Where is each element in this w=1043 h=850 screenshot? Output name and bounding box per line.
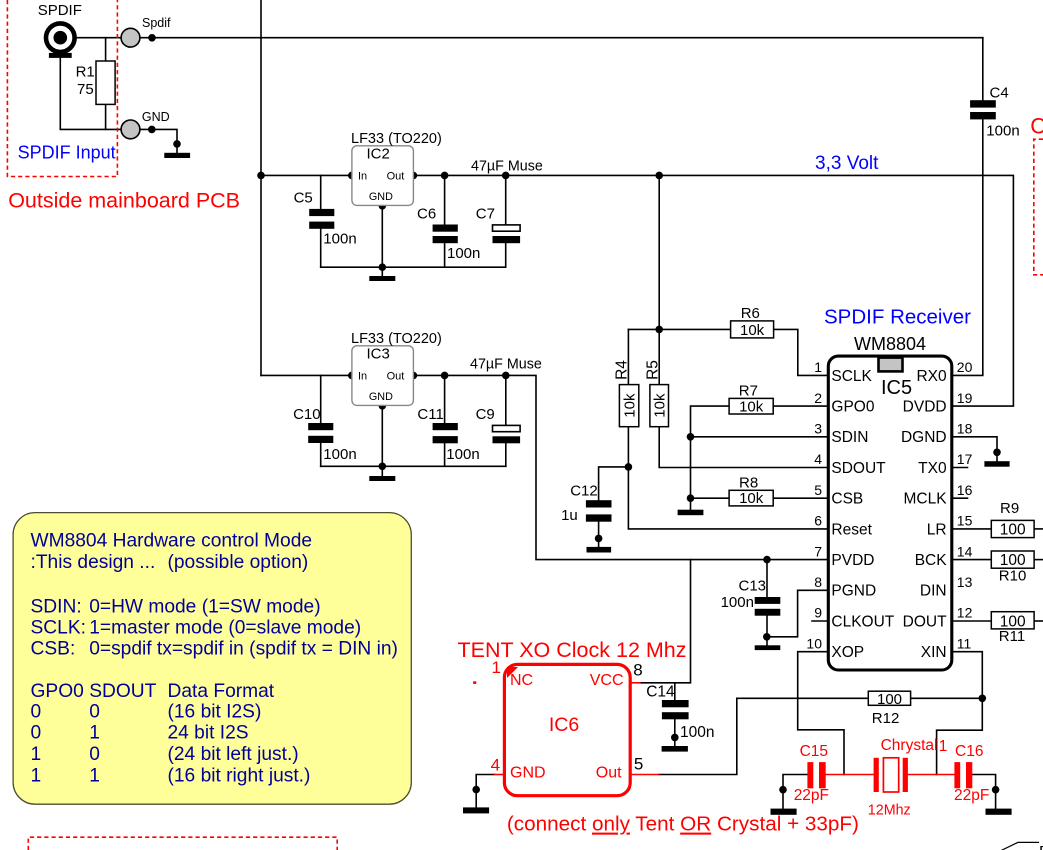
- svg-text:10k: 10k: [740, 322, 765, 339]
- svg-text:GND: GND: [142, 110, 170, 124]
- wire R6 right to SCLK pin 1: [774, 329, 829, 375]
- red dashed box right edge (cut off): [1034, 139, 1043, 275]
- wire XIN pin 11 down to crystal line: [937, 652, 983, 775]
- svg-text:0: 0: [89, 702, 100, 723]
- svg-text:IC3: IC3: [367, 346, 390, 363]
- svg-text:22pF: 22pF: [794, 787, 829, 804]
- svg-text:PVDD: PVDD: [831, 552, 874, 569]
- capacitor C10: [308, 423, 333, 430]
- IC5 left pin names: [831, 368, 894, 661]
- wire C12 to R4 net: [599, 467, 629, 500]
- capacitor C9 (electrolytic): [493, 425, 521, 431]
- wire C13 ground stub: [766, 637, 768, 646]
- ground (IC2 regulator): [369, 276, 395, 281]
- svg-text:LF33 (TO220): LF33 (TO220): [351, 331, 442, 347]
- svg-text:10k: 10k: [739, 490, 764, 507]
- wire C13 top stub: [766, 560, 768, 597]
- svg-text:100n: 100n: [680, 724, 714, 741]
- wire CLKOUT pin 9 stub: [812, 620, 828, 622]
- capacitor C4: [970, 100, 996, 107]
- junction C15 ground: [779, 786, 787, 794]
- svg-text:GND: GND: [369, 391, 393, 403]
- svg-text:C11: C11: [417, 406, 443, 423]
- svg-text:IC6: IC6: [549, 714, 579, 736]
- junction C12 reset net: [625, 463, 633, 471]
- wire R12 right to XIN vertical: [911, 697, 983, 699]
- svg-text:4: 4: [491, 755, 500, 774]
- svg-text:XIN: XIN: [921, 644, 947, 661]
- capacitor C13: [755, 597, 781, 604]
- svg-text:SPDIF Input: SPDIF Input: [18, 142, 116, 162]
- IC5 right pin numbers: [957, 359, 973, 651]
- svg-text:In: In: [358, 371, 367, 383]
- svg-text:Out: Out: [387, 371, 405, 383]
- svg-text:SDIN:: SDIN:: [31, 597, 82, 618]
- svg-text:Ci: Ci: [1030, 114, 1043, 139]
- svg-text:2: 2: [814, 390, 822, 406]
- svg-text:8: 8: [633, 661, 642, 680]
- wire C14 bottom stub: [674, 719, 676, 746]
- svg-text:R9: R9: [1000, 500, 1019, 517]
- resistor R9: [991, 520, 1034, 537]
- wire TX0 pin 17 stub: [952, 467, 968, 469]
- IC5 left pin numbers: [806, 359, 822, 651]
- svg-text:0=HW mode (1=SW mode): 0=HW mode (1=SW mode): [89, 597, 320, 618]
- svg-text:MCLK: MCLK: [904, 491, 948, 508]
- svg-text:GND: GND: [510, 765, 546, 782]
- svg-text:(16 bit I2S): (16 bit I2S): [168, 702, 262, 723]
- wire C7 stub top: [505, 175, 507, 224]
- junction IC6 GND ground: [472, 786, 480, 794]
- wire DOUT pin 12 to R11: [952, 620, 992, 622]
- svg-text:3,3 Volt: 3,3 Volt: [815, 153, 879, 174]
- pin IC2 GND: [379, 202, 387, 210]
- ground (IC6 GND): [463, 807, 489, 813]
- svg-text:100n: 100n: [721, 594, 754, 611]
- wire R4 top stub: [627, 329, 629, 384]
- svg-text:C12: C12: [570, 483, 598, 500]
- svg-text:3: 3: [814, 421, 822, 437]
- capacitor C7 (electrolytic): [493, 225, 521, 231]
- svg-text:DVDD: DVDD: [903, 399, 947, 416]
- wire C14 top stub: [674, 683, 676, 700]
- wire spdif net (pad to C4 top, runs right across page): [140, 37, 983, 39]
- ground (C15): [771, 809, 797, 815]
- svg-text:R7: R7: [739, 382, 758, 399]
- svg-text:LR: LR: [927, 521, 947, 538]
- resistor R7: [729, 398, 773, 414]
- svg-text:C10: C10: [293, 406, 321, 423]
- svg-text:Outside mainboard PCB: Outside mainboard PCB: [8, 189, 240, 213]
- resistor R11: [991, 612, 1034, 629]
- svg-text:10k: 10k: [652, 393, 669, 418]
- wire R10 right to edge: [1034, 559, 1043, 561]
- wire MCLK pin 16 stub: [952, 497, 968, 499]
- svg-text:WM8804: WM8804: [854, 334, 926, 354]
- wire C9 stub top: [505, 375, 507, 425]
- svg-text:DGND: DGND: [901, 429, 947, 446]
- red dashed box SPDIF input: [7, 0, 117, 177]
- wire IC6 Out black segment up to R12: [659, 698, 869, 774]
- svg-text:1: 1: [89, 723, 100, 744]
- wire R8 right to CSB pin 5: [773, 497, 828, 499]
- svg-text:13: 13: [957, 574, 973, 590]
- svg-text:1: 1: [492, 658, 501, 677]
- wire R7 right to GPO0 pin 2: [773, 405, 828, 407]
- svg-text:R8: R8: [739, 474, 758, 491]
- svg-text:0: 0: [31, 723, 42, 744]
- IC5 right pin names: [901, 368, 947, 661]
- svg-text:C16: C16: [955, 743, 983, 760]
- wire IC6 GND black segment to ground: [476, 775, 494, 808]
- regulator IC3: [352, 346, 414, 406]
- svg-text:10k: 10k: [739, 398, 764, 415]
- regulator IC2: [352, 146, 414, 206]
- junction regulator input tee: [257, 172, 265, 180]
- wire R7 left to ground vertical: [691, 406, 730, 510]
- junction IC2 ground bus: [379, 263, 387, 271]
- resistor R1: [96, 61, 115, 104]
- yellow note box: [13, 513, 411, 805]
- wire 3.3V drop to pull-up rail: [658, 175, 660, 329]
- svg-text:C7: C7: [476, 205, 495, 222]
- capacitor C11: [433, 423, 458, 430]
- ground (C12): [587, 547, 612, 553]
- svg-text:6: 6: [814, 513, 822, 529]
- svg-text:C5: C5: [294, 190, 313, 207]
- svg-text:24 bit I2S: 24 bit I2S: [168, 723, 249, 744]
- svg-text:GPO0: GPO0: [31, 681, 84, 702]
- IC6 stray red dot: [473, 681, 476, 684]
- svg-text:IC2: IC2: [367, 146, 390, 163]
- svg-text:SCLK: SCLK: [831, 368, 872, 385]
- svg-text::This design ...: :This design ...: [31, 552, 156, 573]
- wire R8 left stub: [691, 497, 730, 499]
- wire GND pad to ground: [140, 129, 177, 152]
- pin IC3 GND: [379, 402, 387, 410]
- svg-text:100: 100: [877, 691, 902, 708]
- svg-text:TX0: TX0: [918, 460, 947, 477]
- wire IC3 input segment: [261, 374, 352, 376]
- svg-text:12Mhz: 12Mhz: [868, 802, 911, 818]
- svg-text:CSB: CSB: [831, 491, 863, 508]
- svg-text:16: 16: [957, 482, 973, 498]
- svg-text:14: 14: [957, 543, 973, 559]
- pin IC3 Out: [410, 372, 418, 380]
- junction gnd pad: [148, 126, 156, 134]
- junction IC3 ground bus: [379, 463, 387, 471]
- svg-text:DOUT: DOUT: [903, 613, 947, 630]
- svg-text:PGND: PGND: [831, 583, 876, 600]
- capacitor C5: [309, 209, 334, 216]
- resistor R6: [731, 321, 774, 338]
- junction C7 top: [502, 172, 510, 180]
- svg-text:5: 5: [634, 755, 643, 774]
- svg-text:SCLK:: SCLK:: [31, 618, 86, 639]
- wire C15 left to ground: [783, 775, 807, 809]
- svg-text:WM8804 Hardware control Mode: WM8804 Hardware control Mode: [31, 531, 313, 552]
- svg-text:1=master mode (0=slave mode): 1=master mode (0=slave mode): [89, 618, 361, 639]
- wire C13 bottom to PGND pin 8: [767, 590, 828, 637]
- wire R5 top stub: [658, 329, 660, 384]
- svg-text:R6: R6: [741, 305, 760, 322]
- svg-text:SDOUT: SDOUT: [89, 681, 156, 702]
- red dashed box bottom (cut off): [28, 837, 337, 850]
- wire C6 stub top: [444, 175, 446, 224]
- svg-text:75: 75: [77, 81, 94, 98]
- svg-text:C6: C6: [417, 205, 436, 222]
- svg-text:LF33 (TO220): LF33 (TO220): [351, 131, 442, 147]
- svg-text:VCC: VCC: [590, 672, 624, 689]
- svg-text:100n: 100n: [446, 446, 479, 463]
- wire 47uF rail from IC3 out, down to PVDD pin 7: [413, 375, 828, 559]
- wire C12 bottom stub: [598, 522, 600, 547]
- wire bottom-right connector outline fragment: [1002, 842, 1038, 850]
- wire R4 bottom to Reset pin 6: [628, 427, 828, 529]
- svg-text:XOP: XOP: [831, 644, 864, 661]
- wire IC2 input segment: [261, 174, 352, 176]
- svg-text:RX0: RX0: [916, 368, 947, 385]
- svg-text:0=spdif tx=spdif in (spdif tx: 0=spdif tx=spdif in (spdif tx = DIN in): [89, 639, 398, 660]
- svg-text:5: 5: [814, 482, 822, 498]
- svg-text:R10: R10: [999, 568, 1027, 585]
- svg-text:C15: C15: [800, 743, 828, 760]
- ground (IC3 regulator): [369, 476, 395, 481]
- svg-text:10: 10: [806, 635, 822, 651]
- junction R12 XIN: [979, 695, 987, 703]
- svg-text:IC5: IC5: [881, 377, 912, 399]
- wire C11 stub bottom: [444, 443, 446, 466]
- svg-text:Out: Out: [387, 171, 405, 183]
- svg-text:DIN: DIN: [920, 583, 947, 600]
- SPDIF RCA connector: [46, 23, 75, 52]
- svg-text:0: 0: [89, 744, 100, 765]
- junction C9 top: [502, 372, 510, 380]
- wire C5 stub bottom: [320, 229, 322, 267]
- capacitor C15 (red): [807, 762, 813, 788]
- svg-text:C9: C9: [476, 406, 495, 423]
- svg-text:C4: C4: [990, 84, 1009, 101]
- wire C16 right to ground: [972, 775, 995, 809]
- svg-text:1: 1: [31, 766, 42, 787]
- IC5 notch: [879, 358, 903, 372]
- svg-text:Chrystal: Chrystal: [881, 737, 938, 754]
- junction C13 PGND ground: [763, 633, 771, 641]
- svg-text:47µF Muse: 47µF Muse: [471, 158, 543, 174]
- svg-text:47µF Muse: 47µF Muse: [470, 357, 542, 373]
- svg-text:In: In: [358, 171, 367, 183]
- junction R5 R6 pull-up rail: [655, 326, 663, 334]
- pin IC2 In: [348, 172, 356, 180]
- svg-text:100n: 100n: [323, 446, 356, 463]
- resistor R5: [650, 385, 669, 427]
- wire C9 stub bottom: [505, 443, 507, 466]
- svg-text:(16 bit right just.): (16 bit right just.): [168, 766, 311, 787]
- wire XOP pin 10 to crystal line: [798, 652, 844, 775]
- pin IC3 In: [348, 372, 356, 380]
- ground (C16): [986, 809, 1012, 815]
- svg-text:1: 1: [31, 744, 42, 765]
- wire R5 bottom to SDOUT pin 4: [659, 427, 828, 468]
- wire LR pin 15 to R9: [952, 528, 992, 530]
- svg-text:SPDIF: SPDIF: [38, 2, 82, 19]
- junction C12 ground: [595, 535, 603, 543]
- junction C6 top: [441, 172, 449, 180]
- svg-text:18: 18: [957, 421, 973, 437]
- wire IC2 ground bus: [321, 266, 506, 268]
- svg-text:1: 1: [814, 359, 822, 375]
- ground (DGND pin 18): [984, 461, 1009, 467]
- ground (R7 R8 SDIN net): [678, 510, 704, 516]
- svg-text:100n: 100n: [447, 245, 480, 262]
- svg-text:8: 8: [814, 574, 822, 590]
- junction C11 top: [441, 372, 449, 380]
- svg-text:GPO0: GPO0: [831, 399, 874, 416]
- wire IC3 ground bus: [321, 465, 506, 467]
- capacitor C6: [433, 225, 458, 232]
- pin IC2 Out: [410, 172, 418, 180]
- junction gnd pad ground elbow: [173, 140, 181, 148]
- wire C4 vertical top: [982, 38, 984, 100]
- wire C10 stub top: [320, 375, 322, 423]
- wire R9 right to edge: [1034, 528, 1043, 530]
- wire C11 stub top: [444, 375, 446, 423]
- svg-text:22pF: 22pF: [954, 787, 989, 804]
- wire BCK pin 14 to R10: [952, 559, 992, 561]
- capacitor C12: [586, 500, 612, 507]
- svg-text:NC: NC: [510, 672, 533, 689]
- junction DGND ground: [993, 449, 1001, 457]
- capacitor C14: [662, 700, 689, 707]
- svg-text:20: 20: [957, 359, 973, 375]
- pad GND: [121, 120, 140, 139]
- wire regulator input vertical from top edge: [260, 0, 262, 375]
- crystal Chrystal1: [874, 758, 879, 792]
- svg-text:Out: Out: [596, 765, 622, 782]
- svg-text:Spdif: Spdif: [142, 16, 171, 30]
- svg-text:(24 bit left just.): (24 bit left just.): [168, 744, 299, 765]
- resistor R12: [868, 691, 910, 705]
- svg-text:7: 7: [814, 543, 822, 559]
- oscillator IC6 body: [504, 664, 630, 795]
- svg-text:CSB:: CSB:: [31, 639, 76, 660]
- svg-text:R11: R11: [999, 628, 1025, 645]
- wire DGND pin 18 to ground: [952, 437, 997, 461]
- junction C16 ground: [992, 786, 1000, 794]
- svg-text:Data Format: Data Format: [168, 681, 275, 702]
- ground (C14): [662, 746, 688, 752]
- yellow box note text: [31, 531, 398, 787]
- wire C6 stub bottom: [444, 243, 446, 267]
- junction C13 PVDD: [763, 556, 771, 564]
- svg-text:(possible option): (possible option): [168, 552, 309, 573]
- svg-text:19: 19: [957, 390, 973, 406]
- svg-text:100: 100: [1000, 521, 1026, 538]
- svg-text:4: 4: [814, 451, 822, 467]
- wire 3.3V rail from IC2 out to DVDD pin 19: [413, 175, 1013, 406]
- resistor R4: [619, 385, 638, 427]
- ground (C13 PGND): [755, 645, 781, 650]
- svg-text:17: 17: [957, 451, 973, 467]
- svg-text:B: B: [1039, 844, 1043, 850]
- svg-text:Reset: Reset: [831, 521, 872, 538]
- svg-text:11: 11: [957, 635, 972, 651]
- wire red IC6 Out stub: [630, 774, 658, 776]
- wire IC2 GND pin stub: [381, 206, 383, 276]
- svg-text:GND: GND: [369, 191, 393, 203]
- svg-text:BCK: BCK: [915, 552, 948, 569]
- wire IC3 GND pin stub: [381, 406, 383, 476]
- wire pull-up rail R4 R5 to R6: [628, 328, 730, 330]
- svg-text:SDOUT: SDOUT: [831, 460, 886, 477]
- junction 3.3V pull-up tee: [655, 172, 663, 180]
- svg-text:1u: 1u: [561, 507, 578, 524]
- wire C5 stub top: [320, 175, 322, 209]
- svg-text:C14: C14: [646, 684, 675, 701]
- wire spdif net (RCA pin to pad): [76, 37, 122, 39]
- IC5 WM8804 body: [828, 356, 952, 670]
- svg-text:100n: 100n: [986, 122, 1019, 139]
- svg-text:R4: R4: [614, 360, 631, 380]
- wire red IC6 VCC stub: [630, 682, 640, 684]
- wire R1 top stub: [105, 38, 107, 61]
- wire R11 right to edge: [1034, 620, 1043, 622]
- wire C4 vertical bottom to RX0 pin 20: [952, 119, 983, 375]
- svg-text:CLKOUT: CLKOUT: [831, 613, 894, 630]
- junction spdif pad: [148, 34, 156, 42]
- wire R1 bottom stub: [105, 104, 107, 129]
- wire RCA sleeve to GND pad: [60, 58, 121, 130]
- svg-text:R5: R5: [644, 360, 661, 380]
- svg-text:10k: 10k: [622, 393, 639, 418]
- svg-text:C13: C13: [739, 577, 767, 594]
- capacitor C16 (red): [954, 762, 960, 788]
- svg-text:SPDIF Receiver: SPDIF Receiver: [824, 305, 971, 328]
- svg-text:1: 1: [939, 738, 948, 755]
- ground (under GND pad): [164, 153, 190, 158]
- svg-text:R1: R1: [76, 64, 95, 81]
- svg-text:R12: R12: [872, 710, 900, 727]
- wire SDIN pin 3: [691, 436, 829, 438]
- junction R8 ground net: [687, 494, 695, 502]
- svg-text:15: 15: [957, 513, 973, 529]
- svg-text:0: 0: [31, 702, 42, 723]
- IC6 pin1 corner triangle: [507, 667, 518, 678]
- wire IC6 VCC black segment up to PVDD rail: [640, 560, 691, 683]
- svg-text:9: 9: [814, 605, 822, 621]
- pad Spdif: [121, 28, 140, 47]
- svg-text:12: 12: [957, 605, 973, 621]
- svg-text:(connect only Tent OR Crystal: (connect only Tent OR Crystal + 33pF): [507, 813, 859, 836]
- junction SDIN ground net: [687, 433, 695, 441]
- wire red IC6 GND stub: [495, 774, 505, 776]
- resistor R10: [991, 551, 1034, 568]
- svg-text:1: 1: [89, 766, 100, 787]
- svg-text:SDIN: SDIN: [831, 429, 868, 446]
- wire red crystal line C15 to crystal: [826, 774, 874, 776]
- svg-text:100n: 100n: [323, 231, 356, 248]
- junction C14 ground: [671, 734, 679, 742]
- wire red crystal to C16: [908, 774, 955, 776]
- resistor R8: [729, 490, 773, 506]
- wire C7 stub bottom: [505, 243, 507, 267]
- wire C10 stub bottom: [320, 443, 322, 466]
